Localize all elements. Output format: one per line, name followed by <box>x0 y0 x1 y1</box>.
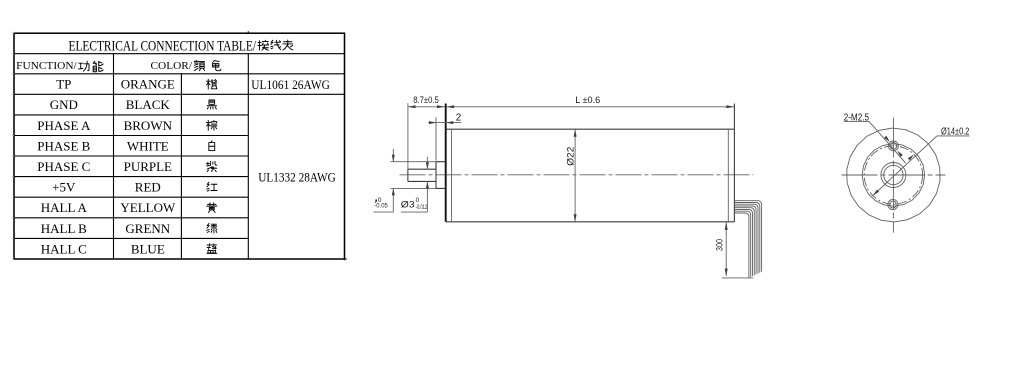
label Ø14±0.2 with leader <box>873 127 970 196</box>
motor body rectangle <box>445 104 447 222</box>
CJK 黑 <box>207 100 217 109</box>
CJK 蓝 <box>207 244 217 254</box>
svg-text:BROWN: BROWN <box>124 118 173 133</box>
svg-text:8.7±0.5: 8.7±0.5 <box>413 95 439 105</box>
svg-text:WHITE: WHITE <box>127 138 169 153</box>
svg-text:HALL B: HALL B <box>41 221 87 236</box>
dimension 8.7±0.5 <box>408 95 445 181</box>
svg-text:UL1332 28AWG: UL1332 28AWG <box>258 169 336 184</box>
svg-text:PHASE C: PHASE C <box>37 159 90 174</box>
CJK 紫 <box>206 161 216 171</box>
svg-text:HALL A: HALL A <box>41 200 88 215</box>
hub circle <box>881 163 906 188</box>
svg-text:HALL C: HALL C <box>41 241 87 256</box>
table grid <box>14 31 347 260</box>
CJK 橙 <box>206 79 216 89</box>
CJK 白 <box>209 141 215 151</box>
svg-text:Ø3: Ø3 <box>401 198 415 209</box>
screw hole top (M2.5) <box>889 141 899 151</box>
bolt circle Ø14 (dash-dot) <box>864 146 922 204</box>
svg-text:BLACK: BLACK <box>126 97 171 112</box>
CJK 绿 <box>207 223 217 233</box>
shaft circle <box>884 165 903 184</box>
CJK 能 <box>93 61 103 72</box>
svg-text:TP: TP <box>56 77 71 92</box>
CJK 黄 <box>207 203 217 213</box>
outer circle (body Ø22, faceted) <box>847 128 940 222</box>
svg-text:ELECTRICAL CONNECTION TABLE/: ELECTRICAL CONNECTION TABLE/ <box>69 37 257 54</box>
boss extension lines (left, cut-off dimension) <box>391 162 437 189</box>
shaft Ø3 outline <box>408 169 436 181</box>
svg-text:2: 2 <box>456 113 461 124</box>
front view center lines <box>892 118 894 233</box>
svg-text:COLOR/: COLOR/ <box>151 61 193 72</box>
svg-text:-0.012: -0.012 <box>416 204 428 211</box>
svg-text:YELLOW: YELLOW <box>120 200 176 215</box>
svg-text:Ø22: Ø22 <box>566 147 576 166</box>
CJK 颜 <box>194 60 204 70</box>
svg-text:GND: GND <box>50 97 78 112</box>
svg-text:PHASE A: PHASE A <box>37 118 91 133</box>
boss (pilot) outline <box>436 162 445 189</box>
CJK 红 <box>207 182 217 191</box>
center line (side view axis) <box>400 174 754 176</box>
CJK 色 <box>213 60 221 70</box>
dimension Ø22 <box>566 129 577 222</box>
dimension boss dia (cut-off label 0/-0.05) <box>374 149 395 212</box>
body inner seam lines <box>452 129 729 222</box>
svg-text:-0.05: -0.05 <box>374 203 388 210</box>
svg-text:RED: RED <box>135 180 161 195</box>
middle circle (end cap, faceted) <box>862 144 925 207</box>
svg-text:PHASE B: PHASE B <box>37 138 90 153</box>
dimension 300 (lead length) <box>714 222 753 278</box>
wire bundle (8 lead wires) <box>734 201 761 278</box>
label 2-M2.5 with leader <box>844 112 906 163</box>
svg-text:GRENN: GRENN <box>125 221 170 236</box>
CJK 功 <box>79 61 90 71</box>
svg-text:UL1061 26AWG: UL1061 26AWG <box>251 77 329 92</box>
dimension Ø3 0/-0.012 <box>401 157 429 212</box>
svg-text:ORANGE: ORANGE <box>121 77 175 92</box>
CJK 接 (header) <box>258 40 269 50</box>
table edge nubs <box>12 32 14 259</box>
CJK 棕 <box>206 120 216 130</box>
dimension L ±0.6 <box>447 95 734 108</box>
CJK 线 (header) <box>271 40 281 49</box>
svg-text:L ±0.6: L ±0.6 <box>575 95 600 105</box>
dimension 2 (boss height) <box>428 113 461 161</box>
svg-text:0: 0 <box>416 197 420 204</box>
svg-text:+5V: +5V <box>52 180 76 195</box>
screw hole bottom (M2.5) <box>888 199 898 209</box>
svg-text:BLUE: BLUE <box>131 241 165 256</box>
CJK 表 (header) <box>283 40 293 50</box>
svg-text:PURPLE: PURPLE <box>124 159 172 174</box>
svg-text:FUNCTION/: FUNCTION/ <box>16 61 77 72</box>
svg-text:300: 300 <box>714 239 724 251</box>
